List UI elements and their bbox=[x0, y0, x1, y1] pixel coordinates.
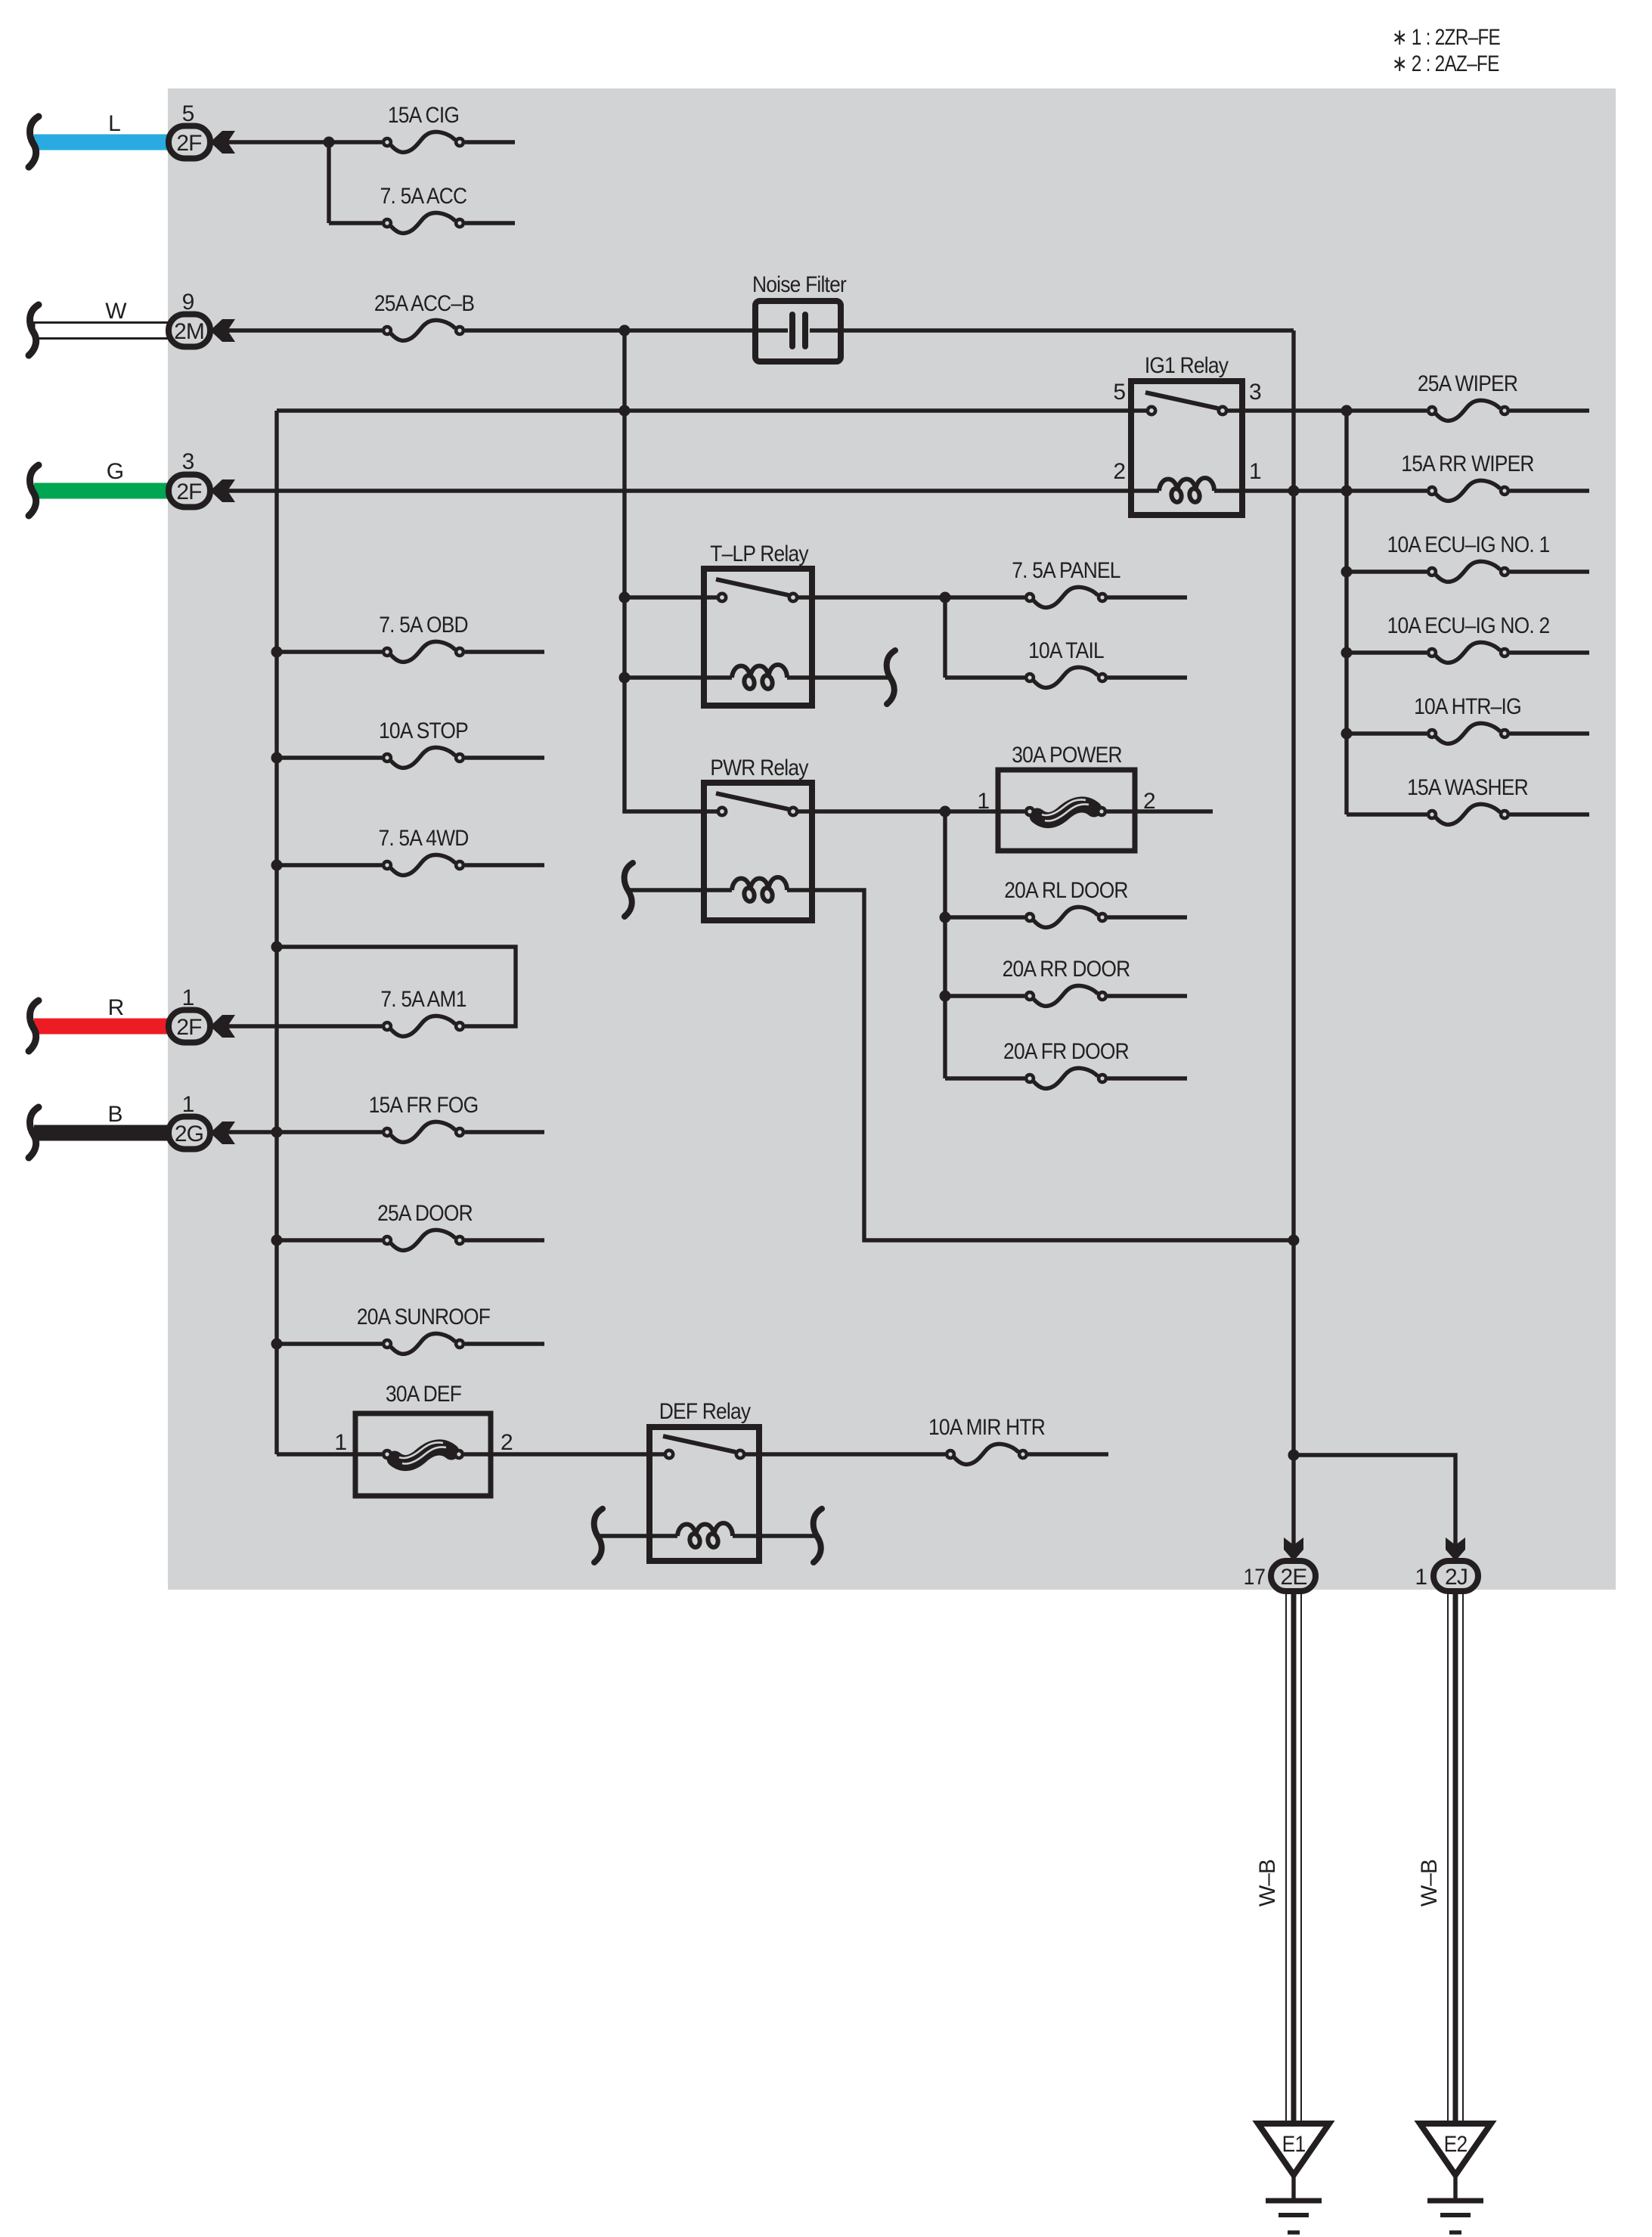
svg-text:2: 2 bbox=[501, 1430, 513, 1455]
relay PWR box bbox=[704, 783, 812, 920]
wire (into filter) bbox=[755, 328, 788, 332]
wire bbox=[945, 1076, 1024, 1080]
wire bbox=[228, 489, 1159, 492]
junction node bbox=[271, 1235, 283, 1246]
wire W-B to E2 bbox=[1448, 1591, 1463, 2124]
wire bbox=[465, 863, 544, 867]
wire (coil out, down to 2E feed) bbox=[787, 890, 1294, 1240]
wire bbox=[1344, 411, 1348, 814]
junction node bbox=[1341, 647, 1353, 659]
svg-text:30A DEF: 30A DEF bbox=[386, 1382, 462, 1407]
wire bbox=[465, 1342, 544, 1345]
break squiggle T-LP coil bbox=[887, 650, 895, 704]
wire bbox=[1108, 1076, 1187, 1080]
ground E2 bbox=[1420, 2124, 1491, 2232]
fuse 10A ECU-IG NO. 2 bbox=[1428, 642, 1508, 662]
wire bbox=[465, 650, 544, 653]
junction node bbox=[324, 137, 335, 148]
fuse 20A SUNROOF bbox=[383, 1333, 463, 1354]
svg-text:2F: 2F bbox=[176, 131, 202, 156]
svg-text:10A TAIL: 10A TAIL bbox=[1028, 638, 1104, 663]
svg-text:IG1 Relay: IG1 Relay bbox=[1145, 353, 1229, 378]
svg-text:G: G bbox=[107, 459, 123, 484]
grey panel bbox=[168, 88, 1616, 1590]
wire bbox=[945, 994, 1024, 997]
wire (contact in) bbox=[625, 595, 717, 599]
wire bbox=[943, 811, 947, 1078]
wire bbox=[945, 675, 1024, 679]
connector 2E bbox=[1271, 1561, 1316, 1591]
wire bbox=[228, 1024, 382, 1028]
wire bbox=[277, 1342, 382, 1345]
fuse 7.5A AM1 bbox=[383, 1016, 463, 1036]
connector 2F (G) bbox=[169, 475, 235, 507]
wire bbox=[464, 1452, 664, 1456]
wire (branch down to ACC) bbox=[327, 142, 330, 223]
arrow into 2E bbox=[1284, 1537, 1303, 1561]
wire (contact out) bbox=[745, 1452, 945, 1456]
fusible link 30A DEF bbox=[383, 1442, 463, 1463]
wire bbox=[465, 755, 544, 759]
wire (coil out) bbox=[787, 675, 890, 679]
wire (AM1 loop) bbox=[277, 947, 516, 1026]
relay DEF coil bbox=[677, 1523, 733, 1548]
svg-text:10A ECU–IG NO. 2: 10A ECU–IG NO. 2 bbox=[1387, 613, 1550, 638]
junction node bbox=[940, 991, 951, 1002]
svg-text:PWR Relay: PWR Relay bbox=[710, 755, 808, 780]
ground E1 bbox=[1258, 2124, 1329, 2232]
junction node bbox=[1288, 1235, 1300, 1246]
fuse 10A HTR-IG bbox=[1428, 723, 1508, 743]
junction node bbox=[271, 1339, 283, 1350]
wire bbox=[277, 1452, 382, 1456]
junction node bbox=[940, 592, 951, 603]
svg-text:2M: 2M bbox=[174, 319, 204, 344]
fuse 25A WIPER bbox=[1428, 400, 1508, 420]
svg-text:30A POWER: 30A POWER bbox=[1012, 743, 1122, 768]
fuse 15A RR WIPER bbox=[1428, 480, 1508, 501]
wire bbox=[1347, 812, 1427, 816]
wire bbox=[1028, 1452, 1108, 1456]
fusible link 30A POWER bbox=[1026, 799, 1105, 821]
fuse 10A TAIL bbox=[1026, 667, 1106, 687]
svg-text:9: 9 bbox=[182, 290, 195, 315]
junction node bbox=[271, 752, 283, 764]
junction node bbox=[1341, 486, 1353, 497]
break squiggle wire G bbox=[29, 465, 39, 516]
svg-text:2F: 2F bbox=[176, 1015, 202, 1040]
fuse 25A DOOR bbox=[383, 1230, 463, 1250]
fuse 20A RR DOOR bbox=[1026, 985, 1106, 1006]
wire (out of filter) bbox=[810, 328, 1294, 332]
svg-text:3: 3 bbox=[182, 449, 195, 474]
wire (coil out) bbox=[733, 1534, 817, 1537]
svg-text:20A SUNROOF: 20A SUNROOF bbox=[357, 1305, 491, 1329]
wire bbox=[1510, 650, 1589, 654]
arrow into 2J bbox=[1446, 1537, 1465, 1561]
break squiggle DEF coil left bbox=[594, 1509, 603, 1562]
svg-text:25A ACC–B: 25A ACC–B bbox=[374, 291, 474, 316]
svg-text:15A RR WIPER: 15A RR WIPER bbox=[1401, 451, 1534, 476]
svg-text:20A FR DOOR: 20A FR DOOR bbox=[1003, 1039, 1129, 1064]
break squiggle PWR coil feed bbox=[625, 863, 633, 917]
wire (branch to 2J) bbox=[1294, 1455, 1455, 1547]
wire W (white) bbox=[34, 323, 169, 339]
svg-text:1: 1 bbox=[182, 985, 195, 1010]
svg-text:20A RL DOOR: 20A RL DOOR bbox=[1004, 878, 1128, 903]
break squiggle wire W bbox=[29, 305, 39, 355]
wire bbox=[228, 328, 382, 332]
svg-text:17: 17 bbox=[1244, 1565, 1266, 1590]
wire (pin3 out) bbox=[1228, 408, 1427, 412]
break squiggle wire L bbox=[29, 116, 39, 167]
junction node bbox=[1341, 566, 1353, 578]
fuse 15A WASHER bbox=[1428, 804, 1508, 824]
svg-text:1: 1 bbox=[977, 789, 990, 814]
svg-text:B: B bbox=[107, 1102, 122, 1127]
svg-text:2J: 2J bbox=[1445, 1565, 1468, 1590]
junction node bbox=[940, 912, 951, 923]
svg-text:W: W bbox=[105, 299, 127, 324]
svg-text:Noise Filter: Noise Filter bbox=[752, 272, 847, 297]
wire L (blue) bbox=[34, 135, 169, 150]
relay T-LP coil bbox=[732, 665, 787, 690]
svg-text:E2: E2 bbox=[1444, 2132, 1468, 2157]
svg-text:1: 1 bbox=[182, 1092, 195, 1117]
svg-text:R: R bbox=[108, 995, 124, 1020]
svg-text:∗ 1 : 2ZR–FE: ∗ 1 : 2ZR–FE bbox=[1392, 25, 1500, 50]
svg-text:1: 1 bbox=[1415, 1565, 1427, 1590]
break squiggle wire B bbox=[29, 1107, 39, 1158]
svg-text:∗ 2 : 2AZ–FE: ∗ 2 : 2AZ–FE bbox=[1392, 51, 1499, 76]
fuse 10A MIR HTR bbox=[947, 1444, 1027, 1464]
fuse 10A STOP bbox=[383, 747, 463, 768]
wire bbox=[329, 221, 382, 225]
wire bbox=[228, 140, 382, 144]
wire bbox=[465, 1238, 544, 1242]
wire bbox=[1108, 915, 1187, 919]
wire bbox=[1510, 408, 1589, 412]
svg-text:20A RR DOOR: 20A RR DOOR bbox=[1003, 957, 1130, 982]
junction node bbox=[619, 405, 631, 417]
relay PWR contact bbox=[716, 793, 797, 815]
svg-text:15A WASHER: 15A WASHER bbox=[1407, 775, 1528, 800]
wire bbox=[465, 1130, 544, 1134]
relay T-LP box bbox=[704, 569, 812, 706]
junction node bbox=[1288, 486, 1300, 497]
fuse 25A ACC-B bbox=[383, 320, 463, 340]
wire bbox=[277, 408, 1146, 412]
svg-text:7. 5A AM1: 7. 5A AM1 bbox=[380, 987, 466, 1012]
wire bbox=[1108, 675, 1187, 679]
wire bbox=[1107, 809, 1213, 813]
fuse 7.5A 4WD bbox=[383, 855, 463, 875]
svg-text:7. 5A PANEL: 7. 5A PANEL bbox=[1012, 558, 1120, 583]
svg-text:15A FR FOG: 15A FR FOG bbox=[369, 1093, 479, 1118]
capacitor plate left bbox=[789, 315, 795, 346]
wire bbox=[1108, 994, 1187, 997]
relay IG1 box bbox=[1131, 381, 1242, 515]
capacitor plate right bbox=[802, 315, 808, 346]
junction node bbox=[940, 806, 951, 818]
connector 2G bbox=[169, 1117, 235, 1150]
wire bbox=[1108, 595, 1187, 599]
connector 2F (R) bbox=[169, 1010, 235, 1043]
junction node bbox=[271, 647, 283, 658]
connector 2F (L) bbox=[169, 126, 235, 159]
svg-text:7. 5A 4WD: 7. 5A 4WD bbox=[378, 826, 468, 851]
svg-text:5: 5 bbox=[1113, 380, 1126, 405]
wire G (green) bbox=[34, 483, 169, 499]
connector 2J bbox=[1433, 1561, 1478, 1591]
relay DEF box bbox=[649, 1427, 759, 1561]
junction node bbox=[1341, 728, 1353, 740]
wire (drop to TAIL) bbox=[943, 597, 947, 678]
svg-text:10A ECU–IG NO. 1: 10A ECU–IG NO. 1 bbox=[1387, 532, 1550, 557]
svg-text:T–LP Relay: T–LP Relay bbox=[710, 541, 808, 566]
svg-text:7. 5A ACC: 7. 5A ACC bbox=[380, 184, 467, 209]
break squiggle wire R bbox=[29, 1001, 39, 1051]
wire bbox=[945, 915, 1024, 919]
wire bbox=[622, 330, 626, 811]
fusible link 30A DEF box bbox=[355, 1413, 491, 1496]
junction node bbox=[1288, 1450, 1300, 1461]
svg-text:1: 1 bbox=[1249, 459, 1262, 484]
svg-text:10A MIR HTR: 10A MIR HTR bbox=[928, 1415, 1045, 1440]
wire R (red) bbox=[34, 1019, 169, 1035]
fuse 20A RL DOOR bbox=[1026, 907, 1106, 927]
svg-text:W–B: W–B bbox=[1417, 1860, 1442, 1907]
fuse 7.5A OBD bbox=[383, 641, 463, 662]
wire bbox=[277, 863, 382, 867]
relay IG1 coil bbox=[1159, 478, 1214, 503]
svg-text:3: 3 bbox=[1249, 380, 1262, 405]
wire (coil in) bbox=[597, 1534, 677, 1537]
wire bbox=[228, 1130, 382, 1134]
wire bbox=[1347, 650, 1427, 654]
wire bbox=[1347, 731, 1427, 735]
junction node bbox=[271, 860, 283, 871]
junction node bbox=[1341, 405, 1353, 417]
wire (contact out) bbox=[798, 595, 1024, 599]
junction node bbox=[619, 325, 631, 337]
svg-text:10A HTR–IG: 10A HTR–IG bbox=[1414, 694, 1521, 719]
wire bbox=[277, 1238, 382, 1242]
wire (coil in) bbox=[628, 888, 732, 892]
svg-text:25A DOOR: 25A DOOR bbox=[377, 1201, 473, 1226]
relay T-LP contact bbox=[716, 579, 797, 601]
svg-text:5: 5 bbox=[182, 101, 195, 126]
junction node bbox=[619, 592, 631, 603]
wire bbox=[465, 328, 755, 332]
fuse 15A FR FOG bbox=[383, 1122, 463, 1142]
fusible link 30A POWER box bbox=[998, 770, 1135, 851]
connector 2M bbox=[169, 315, 235, 347]
relay IG1 contact bbox=[1145, 392, 1226, 414]
relay PWR coil bbox=[732, 877, 787, 902]
wire (coil in) bbox=[625, 675, 732, 679]
svg-text:L: L bbox=[108, 111, 120, 136]
wire bbox=[1510, 489, 1589, 492]
svg-text:7. 5A OBD: 7. 5A OBD bbox=[379, 613, 468, 638]
wire B (black) bbox=[34, 1125, 169, 1141]
svg-text:25A WIPER: 25A WIPER bbox=[1418, 371, 1518, 396]
junction node bbox=[271, 942, 283, 953]
wire (pin1 out) bbox=[1214, 489, 1427, 492]
wire bbox=[465, 221, 515, 225]
fuse 7.5A ACC bbox=[383, 213, 463, 233]
fuse 15A CIG bbox=[383, 132, 463, 152]
wire bbox=[274, 411, 278, 1454]
fuse 20A FR DOOR bbox=[1026, 1068, 1106, 1088]
wire W-B to E1 bbox=[1286, 1591, 1301, 2124]
svg-text:2E: 2E bbox=[1281, 1565, 1307, 1590]
svg-text:DEF Relay: DEF Relay bbox=[659, 1399, 751, 1424]
junction node bbox=[271, 1127, 283, 1138]
wire bbox=[277, 755, 382, 759]
svg-text:2: 2 bbox=[1113, 459, 1126, 484]
svg-text:2G: 2G bbox=[175, 1122, 203, 1146]
wire bbox=[1291, 330, 1295, 1547]
svg-text:E1: E1 bbox=[1282, 2132, 1306, 2157]
fuse 10A ECU-IG NO. 1 bbox=[1428, 561, 1508, 582]
svg-text:1: 1 bbox=[334, 1430, 347, 1455]
svg-text:W–B: W–B bbox=[1255, 1860, 1280, 1907]
wire bbox=[1510, 731, 1589, 735]
fuse 7.5A PANEL bbox=[1026, 587, 1106, 607]
svg-text:10A STOP: 10A STOP bbox=[379, 718, 468, 743]
wire (contact out) bbox=[798, 809, 1024, 813]
svg-text:2F: 2F bbox=[176, 479, 202, 504]
junction node bbox=[619, 672, 631, 684]
wire bbox=[1347, 569, 1427, 573]
wire (contact in from bus corner) bbox=[625, 811, 717, 811]
svg-text:15A CIG: 15A CIG bbox=[388, 103, 459, 128]
break squiggle DEF coil right bbox=[814, 1509, 822, 1562]
wire bbox=[465, 140, 515, 144]
relay DEF contact bbox=[663, 1436, 744, 1458]
wire bbox=[1510, 812, 1589, 816]
wire bbox=[1510, 569, 1589, 573]
wire bbox=[277, 650, 382, 653]
